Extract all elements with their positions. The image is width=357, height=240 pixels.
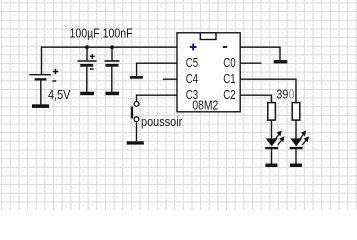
svg-text:C4: C4 [186,71,198,86]
svg-text:0: 0 [289,87,295,102]
svg-text:100µF 100nF: 100µF 100nF [70,25,133,40]
svg-text:poussoir: poussoir [141,114,183,129]
svg-text:4,5V: 4,5V [48,87,71,102]
svg-text:08M2: 08M2 [192,98,218,113]
svg-text:C0: C0 [223,55,235,70]
svg-text:C2: C2 [223,87,235,102]
svg-text:C1: C1 [223,71,235,86]
svg-text:C5: C5 [186,55,198,70]
svg-text:39: 39 [276,87,288,102]
